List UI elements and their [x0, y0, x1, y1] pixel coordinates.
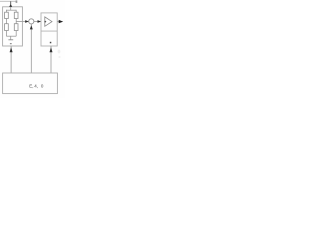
summing node — [29, 19, 34, 24]
amplifier triangle — [45, 17, 52, 26]
noise speck — [58, 50, 61, 54]
arrow into amplifier box bottom — [50, 47, 53, 52]
resistor R3 — [5, 24, 9, 31]
wire left branch upper stub — [5, 10, 7, 12]
wire top bus — [6, 9, 16, 11]
noise speck — [58, 56, 60, 58]
wire feedback drop — [50, 46, 52, 73]
output arrow — [59, 20, 64, 23]
excitation arrow into bridge top — [9, 1, 12, 7]
lower cell dot — [50, 42, 52, 44]
compensation box — [3, 73, 58, 94]
arrow into bridge bottom — [10, 47, 13, 52]
wire summing node to amplifier — [34, 21, 41, 23]
wire right branch upper stub — [15, 10, 17, 12]
wire feedback to bridge bottom — [10, 46, 12, 73]
wire bridge to summing node — [22, 21, 28, 23]
svg-text:E,: E, — [29, 84, 33, 89]
cropped rule artifact top-left — [0, 1, 16, 2]
ground — [8, 36, 13, 44]
arrow into amplifier — [38, 20, 42, 23]
wire left mid — [5, 19, 7, 24]
wire right lower — [15, 31, 17, 37]
wire bridge output tap — [16, 21, 22, 23]
arrow into summing node — [25, 20, 29, 23]
wire top tap — [10, 7, 12, 10]
svg-text:4,: 4, — [34, 84, 38, 89]
resistor R1 — [5, 12, 9, 18]
amplifier box divider — [41, 30, 57, 32]
amplifier box U1 — [41, 13, 57, 46]
bridge box (transducer) — [3, 7, 23, 46]
artifact nub — [16, 0, 18, 3]
resistor R4 — [14, 24, 18, 31]
wire output — [57, 21, 59, 23]
wire left lower — [5, 31, 7, 37]
wire right mid — [15, 19, 17, 24]
arrow into summing node from below — [30, 25, 33, 29]
wire compensation to summing node — [30, 24, 32, 73]
wire bottom bus — [6, 35, 16, 37]
resistor R2 — [14, 12, 18, 18]
amplifier input dot — [44, 21, 46, 23]
